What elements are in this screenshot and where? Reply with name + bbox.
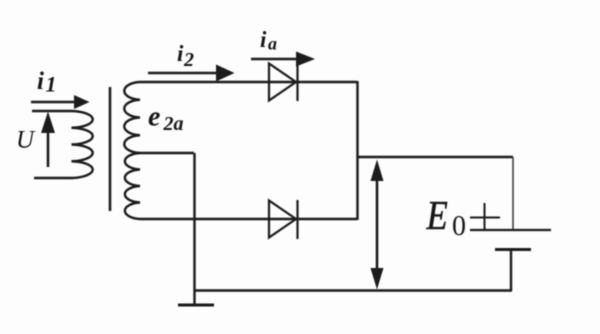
- arrow i1: [31, 95, 90, 109]
- svg-text:i: i: [37, 68, 44, 95]
- transformer primary winding: [72, 111, 93, 178]
- svg-text:0: 0: [452, 211, 466, 242]
- wire right vertical node: [356, 81, 358, 220]
- battery plus sign: [470, 203, 500, 229]
- ground: [178, 304, 214, 307]
- svg-text:i: i: [260, 27, 267, 52]
- wire primary bottom lead: [34, 177, 72, 179]
- diode D1: [269, 63, 298, 101]
- wire primary top lead: [32, 110, 72, 112]
- wire secondary top through D1 to top-right corner: [140, 81, 357, 83]
- wire battery bottom lead: [510, 249, 512, 291]
- svg-text:1: 1: [46, 72, 57, 97]
- wire output mid: [357, 156, 513, 158]
- arrow output voltage double-headed: [371, 160, 384, 290]
- battery E0 long plate: [470, 229, 551, 231]
- svg-text:2: 2: [183, 49, 194, 71]
- arrow ia: [251, 52, 315, 67]
- svg-text:a: a: [268, 34, 277, 54]
- battery E0 short plate: [495, 248, 531, 251]
- wire secondary bottom through D2 to right vertical: [140, 218, 357, 220]
- svg-text:2a: 2a: [163, 113, 184, 135]
- svg-text:i: i: [177, 41, 184, 66]
- transformer core: [109, 87, 112, 211]
- wire bottom rail: [194, 289, 512, 291]
- diode D2: [269, 200, 298, 239]
- wire center tap horizontal: [137, 152, 194, 154]
- wire battery top lead: [512, 157, 514, 230]
- transformer secondary winding: [124, 82, 140, 219]
- wire center tap vertical: [193, 153, 195, 305]
- arrow U: [41, 112, 55, 168]
- arrow i2: [148, 65, 235, 82]
- svg-text:U: U: [16, 127, 36, 154]
- svg-text:E: E: [426, 193, 448, 238]
- svg-text:e: e: [148, 102, 160, 133]
